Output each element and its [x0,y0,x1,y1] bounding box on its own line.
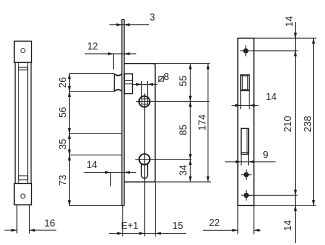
dim line 14 210 14 vertical [294,22,296,243]
svg-text:56: 56 [58,107,69,118]
follower centerline horizontal [136,100,210,102]
top hole extension line [252,50,298,52]
svg-text:3: 3 [150,13,155,24]
E+1 extension line [122,206,124,237]
deadbolt window [241,128,248,154]
dim 238 line [313,38,315,205]
svg-text:14: 14 [266,92,277,103]
bottom end cap [14,184,31,205]
dim square8 line [133,83,158,85]
bottom dim line E+1 and 15 [109,232,186,234]
case bottom edge and extension [124,181,153,183]
bottom screw hole [244,193,249,198]
dim 14 window line [232,104,259,106]
left chain extension lines [69,73,114,75]
svg-text:55: 55 [178,76,189,87]
top screw hole [243,48,248,53]
middle view: lock case side elevation [58,13,211,237]
faceplate outline [238,38,254,205]
centerline vertical follower to cylinder [144,93,146,236]
plate top extension line [254,37,316,39]
dim 14 roller line [84,171,136,173]
dim 14 window extension lines [240,91,242,110]
svg-text:26: 26 [58,77,69,88]
dim 12 extension line [112,54,114,70]
15 extension line [154,182,156,237]
svg-text:210: 210 [283,115,294,132]
bottom cap hole [21,194,25,198]
svg-text:35: 35 [58,139,69,150]
svg-text:22: 22 [209,218,220,229]
roller axle block behind faceplate [124,74,132,94]
euro cylinder neck [140,163,142,175]
roller bolt side view [113,74,115,92]
plate bottom extension line [254,205,316,207]
dim 14 roller extension line [110,172,112,186]
svg-text:34: 34 [178,164,189,175]
middle screw hole [244,172,249,177]
dim 9 line [225,161,276,163]
bottom hole extension line [249,194,298,196]
top crossbar [19,67,28,70]
cylinder centerline horizontal [135,159,191,161]
square symbol of label 8 [159,77,164,82]
square edge extension lines [141,81,143,98]
follower square 8mm [142,99,148,104]
svg-text:238: 238 [303,116,314,132]
right chain dimension line 55 85 34 [189,64,191,182]
right view: faceplate front elevation [203,16,316,243]
dim 16 extension lines [16,206,18,234]
svg-text:16: 16 [44,218,55,229]
bottom crossbar [19,176,28,180]
euro cylinder circle [139,154,150,165]
svg-text:85: 85 [178,125,189,136]
top cap hole [21,49,25,53]
svg-text:174: 174 [198,114,209,131]
svg-text:14: 14 [87,160,98,171]
svg-text:E+1: E+1 [121,221,139,232]
left rail outer line [14,62,16,183]
svg-text:15: 15 [172,221,183,232]
svg-text:73: 73 [58,175,69,186]
faceplate edge-on double line [121,20,123,206]
case back edge [153,64,155,182]
case top edge and extension [124,63,154,65]
svg-text:9: 9 [263,150,268,161]
svg-text:8: 8 [164,72,169,83]
right rail inner line [27,62,29,183]
right rail outer line [30,62,32,183]
dim 22 line [203,229,238,231]
svg-text:14: 14 [283,220,294,231]
dim 3 line [110,24,150,26]
left view: strike channel side profile [5,41,57,233]
dim 174 line [207,64,209,182]
svg-text:12: 12 [87,41,98,52]
follower circle [139,96,150,107]
dim 22 extension lines [237,206,239,235]
svg-text:14: 14 [285,16,296,27]
dim 9 extension lines [240,154,242,165]
roller latch window [241,75,250,91]
left rail inner line [18,62,20,183]
left chain dimension line [68,74,70,206]
top end cap [14,41,31,62]
dim 12 line [85,53,137,55]
dim 16 line [5,229,17,231]
